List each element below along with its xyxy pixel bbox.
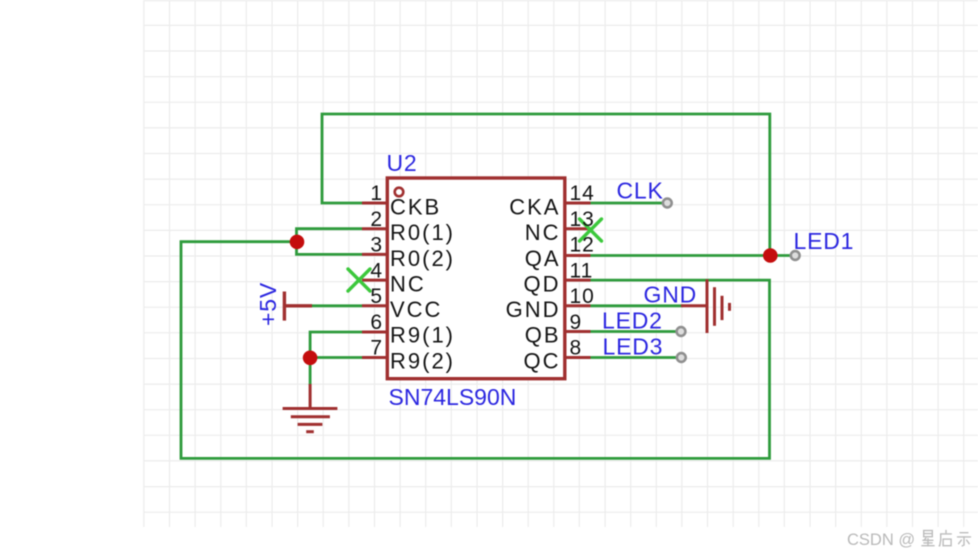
svg-text:LED2: LED2 bbox=[602, 308, 663, 334]
svg-text:2: 2 bbox=[370, 208, 383, 231]
svg-text:R9(1): R9(1) bbox=[390, 323, 455, 348]
svg-text:GND: GND bbox=[506, 297, 561, 322]
svg-text:R9(2): R9(2) bbox=[390, 348, 455, 373]
svg-text:6: 6 bbox=[370, 311, 383, 334]
svg-text:8: 8 bbox=[570, 337, 583, 360]
svg-text:QC: QC bbox=[524, 348, 561, 373]
svg-text:CSDN @: CSDN @ bbox=[847, 531, 915, 549]
svg-text:3: 3 bbox=[370, 234, 383, 257]
svg-text:5: 5 bbox=[370, 285, 383, 308]
svg-text:1: 1 bbox=[370, 182, 383, 205]
svg-text:QD: QD bbox=[524, 271, 561, 296]
svg-text:QA: QA bbox=[525, 246, 561, 271]
svg-text:+5V: +5V bbox=[255, 282, 281, 326]
svg-text:NC: NC bbox=[390, 271, 426, 296]
svg-text:12: 12 bbox=[570, 234, 595, 257]
svg-text:VCC: VCC bbox=[390, 297, 442, 322]
svg-text:4: 4 bbox=[370, 259, 383, 282]
svg-text:QB: QB bbox=[525, 323, 561, 348]
svg-text:13: 13 bbox=[570, 208, 595, 231]
svg-text:CLK: CLK bbox=[617, 177, 664, 203]
svg-text:CKB: CKB bbox=[390, 195, 441, 220]
svg-text:NC: NC bbox=[525, 220, 561, 245]
svg-text:9: 9 bbox=[570, 311, 583, 334]
svg-text:11: 11 bbox=[570, 259, 594, 282]
svg-text:10: 10 bbox=[570, 285, 595, 308]
svg-text:GND: GND bbox=[644, 282, 698, 308]
svg-text:U2: U2 bbox=[387, 150, 418, 176]
svg-text:LED3: LED3 bbox=[603, 334, 664, 360]
svg-text:CKA: CKA bbox=[509, 195, 560, 220]
svg-text:14: 14 bbox=[570, 182, 595, 205]
svg-text:LED1: LED1 bbox=[794, 228, 855, 254]
svg-text:7: 7 bbox=[370, 337, 383, 360]
svg-text:R0(2): R0(2) bbox=[390, 246, 455, 271]
svg-text:SN74LS90N: SN74LS90N bbox=[389, 384, 517, 410]
svg-text:R0(1): R0(1) bbox=[390, 220, 455, 245]
